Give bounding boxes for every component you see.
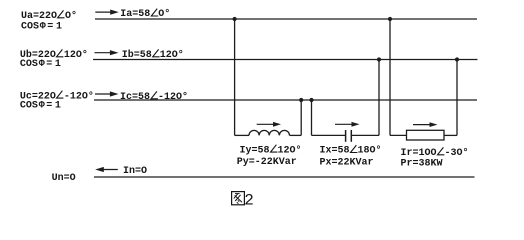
wire resistor loop bottom left segment [390,134,407,136]
svg-text:Py=-22KVar: Py=-22KVar [237,157,297,168]
label Ua=220∠0° [21,10,77,22]
label Ub=220∠120° [20,49,88,61]
arrow current Ir direction above resistor [413,122,438,127]
wire phase C line [94,99,477,101]
capacitor C (load X) right plate [350,130,352,142]
wire resistor loop bottom right segment [444,134,457,136]
svg-text:Ix=58: Ix=58 [320,146,350,157]
svg-text:O°: O° [65,10,77,22]
capacitor C (load X) left plate [345,130,347,142]
caption 图2 hanzi drawn strokes [232,192,245,205]
svg-text:In=O: In=O [123,166,147,177]
label Ib=58∠120° [122,49,184,61]
node junction dot phase A / inductor branch [233,17,237,21]
arrow current In direction (leftward) [95,167,118,172]
arrow current Ia direction [95,10,119,15]
svg-text:COSΦ=1: COSΦ=1 [20,101,61,112]
node junction dot phase A / resistor branch [388,17,392,21]
resistor R (load R) box [407,130,445,140]
wire phase B line [93,59,478,61]
svg-text:Un=O: Un=O [52,173,76,184]
svg-text:Ib=58: Ib=58 [122,49,152,61]
svg-text:-3O°: -3O° [445,147,469,159]
svg-text:-12O°: -12O° [64,90,94,102]
node junction dot phase B / resistor branch [455,57,459,61]
arrow current Iy direction above inductor [257,122,281,127]
wire vertical from phase B to capacitor loop right [378,60,380,136]
svg-text:Pr=38KW: Pr=38KW [401,159,443,170]
node junction dot phase B / capacitor branch [377,57,381,61]
label Iy=58∠120° [240,144,302,156]
node junction dot phase C / inductor branch [299,98,303,102]
svg-text:2: 2 [244,192,254,210]
label Ia=58∠0° [120,8,170,20]
svg-text:Ia=58: Ia=58 [120,9,150,20]
wire vertical from phase C to capacitor loop left [311,100,313,135]
svg-text:-12O°: -12O° [158,91,188,103]
wire inductor loop bottom right segment [290,134,302,136]
wire capacitor loop bottom right segment [351,134,379,136]
svg-text:COSΦ=1: COSΦ=1 [20,59,61,70]
wire phase A line [95,18,477,20]
wire vertical from phase C to inductor loop right [300,100,302,135]
label Ic=58∠-120° [120,91,188,103]
svg-text:12O°: 12O° [278,144,302,156]
inductor L (load Y) [249,130,289,135]
arrow current Ib direction [95,50,119,55]
svg-text:Px=22KVar: Px=22KVar [320,158,374,169]
svg-text:Ir=1OO: Ir=1OO [401,148,437,159]
wire vertical from phase B to resistor loop right [456,60,458,136]
svg-text:12O°: 12O° [64,49,88,61]
node junction dot phase C / capacitor branch [309,98,313,102]
wire capacitor loop bottom left segment [312,134,346,136]
svg-text:O°: O° [158,8,170,20]
svg-text:12O°: 12O° [160,49,184,61]
wire vertical from phase A to inductor loop left [234,19,236,135]
wire neutral N line [94,176,475,178]
wire vertical from phase A to resistor loop left [389,19,391,135]
arrow current Ix direction above capacitor [335,122,360,127]
svg-text:Ic=58: Ic=58 [120,92,150,103]
label Ix=58∠180° [320,145,382,157]
svg-text:COSΦ=1: COSΦ=1 [21,21,62,32]
svg-text:Iy=58: Iy=58 [240,145,270,156]
svg-text:18O°: 18O° [358,145,382,157]
label Ir=100∠-30° [401,147,469,159]
wire inductor loop bottom left segment [235,134,249,136]
arrow current Ic direction [95,91,119,96]
label Uc=220∠-120° [20,90,94,102]
